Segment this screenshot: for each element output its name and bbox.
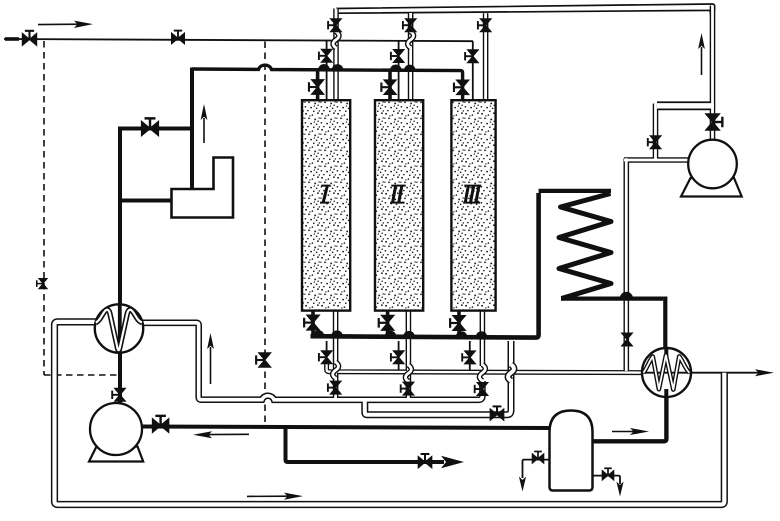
wire feed branch to column III: [472, 41, 474, 102]
wire top product manifold inner: [338, 10, 710, 14]
wire exchanger outlet down and to separator: [593, 395, 667, 441]
wire jog lower branch over collect line: [508, 365, 514, 381]
pipe cold recycle loop bottom and left: [55, 322, 725, 505]
valve V30 separator right drain: [602, 468, 614, 480]
wire heater outlet header: [561, 297, 663, 301]
pipe pump bypass horizontal: [657, 101, 714, 110]
valve V32 dashed line centre: [256, 353, 271, 367]
node manifold bottom col III a: [456, 331, 468, 336]
node manifold bottom col II a: [385, 331, 397, 336]
wire hot inlet down from manifold corner: [190, 68, 194, 190]
valve V31 dashed line left: [37, 278, 48, 288]
node manifold bottom col II b: [403, 331, 415, 336]
valve V4 column II top riser: [403, 19, 416, 32]
exchanger E2 shell right: [642, 348, 691, 397]
valve V28 blowdown outlet: [418, 454, 432, 468]
valve V27 pump discharge left: [152, 416, 168, 433]
valve V26 cooler outlet left: [112, 388, 125, 401]
coil E2: [643, 355, 689, 389]
node manifold bottom col I a: [313, 330, 325, 335]
wire product line to outlet arrow right: [688, 372, 760, 374]
valve V16 column I drawoff: [319, 351, 332, 364]
pipe riser column III top: [483, 13, 489, 102]
valve V6 block bypass: [142, 118, 159, 135]
dashed impulse line centre, from feed line down to pump discharge header: [264, 42, 266, 427]
valve V24 pump bypass right: [648, 136, 661, 149]
wire hot manifold top with jump over dashed line: [192, 65, 463, 102]
column I adsorber: [302, 100, 350, 310]
node manifold top col I b: [332, 64, 344, 69]
arrow right above bottom loop: [247, 493, 303, 500]
wire heater top header: [539, 189, 611, 193]
valve V13 column I bottom stub: [304, 315, 319, 330]
wire heater outlet down to exchanger: [663, 297, 667, 351]
valve V20 column II riser bottom: [401, 382, 414, 395]
valve V5 column III top riser: [478, 19, 491, 32]
pipe riser column I bottom: [333, 308, 339, 400]
pump P1 casing left: [90, 403, 142, 455]
pipe riser column I top: [333, 9, 339, 103]
arrow right separator to exchanger: [612, 428, 649, 435]
wire regen manifold bottom to heater: [311, 193, 539, 338]
arrow separator right drain down: [616, 482, 623, 497]
valve V14 column II bottom stub: [379, 315, 394, 330]
wire jog riser I over feed line: [333, 32, 339, 48]
pipe regen collect line to exchanger: [327, 364, 643, 373]
arrow left at pump P1 discharge: [193, 431, 249, 438]
wire jog riser II over feed line: [408, 32, 414, 48]
pipe pump bypass vertical: [653, 104, 659, 161]
valve V25 pump discharge right: [706, 114, 723, 130]
valve V2 feed line mid: [172, 31, 185, 44]
wire E2 hot stubs: [664, 349, 668, 397]
label column II: [390, 186, 406, 203]
wire separator right drain: [593, 476, 621, 484]
vessel separator dome: [550, 411, 593, 491]
valve V23 heater outlet branch: [622, 333, 633, 346]
pipe riser column II top: [408, 13, 414, 102]
pipe exchanger cold outlet down to wash header: [143, 323, 483, 400]
wire E1 tube pass vertical: [118, 305, 122, 353]
node manifold top col II a: [390, 65, 402, 70]
valve V7 column I feed branch: [319, 49, 332, 62]
wire column II bottom stub: [386, 309, 390, 337]
column III adsorber: [451, 100, 495, 310]
valve V21 column III riser bottom: [475, 383, 488, 396]
valve V12 column III hot stub: [454, 80, 469, 95]
node manifold top col I a: [318, 64, 330, 69]
arrow feed in right: [38, 21, 93, 28]
wire column I regen drawoff: [326, 341, 328, 366]
pipe pump discharge riser right: [710, 6, 716, 142]
wire separator left drain: [523, 460, 550, 478]
wire jog riser II over collect line: [405, 365, 411, 381]
wire blowdown branch with outlet: [286, 427, 445, 462]
valve V17 column II drawoff: [391, 351, 404, 364]
coil heater zigzag: [559, 194, 611, 299]
wire jog riser I over collect line: [333, 362, 339, 378]
valve V8 column II feed branch: [391, 50, 404, 63]
column II adsorber: [375, 100, 423, 310]
arrow product outlet right: [755, 369, 774, 376]
wire feed branch to column II: [398, 41, 400, 102]
arrow up at wash riser: [207, 333, 214, 384]
wire column I bottom stub: [311, 309, 315, 337]
wire feed branch to column I: [326, 40, 328, 102]
valve V29 separator left drain: [532, 451, 544, 463]
wire E2 product pass horizontal: [643, 372, 691, 374]
wire left cooler string vertical: [118, 127, 122, 405]
node manifold top col II b: [404, 65, 416, 70]
valve V10 column I hot stub: [309, 80, 324, 95]
exchanger E1 shell left: [95, 304, 143, 352]
node heater outlet branch: [620, 292, 634, 298]
wire feed line top: [4, 39, 473, 41]
label column I: [320, 186, 330, 203]
wire column II hot stub top: [388, 70, 392, 102]
valve V9 column III feed branch: [465, 50, 478, 63]
wire column III bottom stub: [457, 309, 461, 338]
arrow up at product riser right: [698, 33, 705, 75]
valve V19 column I riser bottom: [328, 381, 341, 394]
pipe riser column III bottom: [480, 308, 486, 366]
pump P2 base right: [681, 178, 742, 197]
arrow blowdown outlet heavy: [441, 456, 464, 468]
valve V1 feed inlet: [22, 31, 36, 46]
pipe pump suction horizontal: [624, 157, 689, 163]
coil E1: [96, 310, 142, 350]
arrow separator left drain down: [519, 477, 526, 492]
node manifold bottom col III b: [476, 331, 488, 336]
wire column III regen drawoff: [469, 341, 471, 372]
pipe wash header lower branch: [365, 341, 511, 415]
wire column I hot stub top: [316, 70, 320, 102]
pump P2 casing right: [688, 140, 737, 189]
pipe riser column II bottom: [406, 308, 412, 400]
wire jog riser III over collect line: [479, 365, 485, 381]
arrow up at block riser: [201, 104, 208, 143]
wire pump discharge header to separator: [142, 427, 550, 429]
valve V22 wash header: [490, 406, 504, 420]
wire column II regen drawoff: [398, 341, 400, 372]
node manifold bottom col I b: [331, 330, 343, 335]
pump P1 base left: [89, 447, 143, 462]
wire top product manifold outer: [336, 4, 715, 10]
valve V11 column II hot stub: [381, 80, 396, 95]
dashed impulse line left, from feed line down then right to pump suction: [44, 41, 119, 375]
valve V15 column III bottom stub: [450, 316, 465, 331]
wire heater block bypass with valve: [122, 127, 192, 131]
block furnace step outline left: [172, 158, 234, 218]
pipe heater branch vertical: [623, 158, 629, 371]
valve V18 column III drawoff: [462, 351, 475, 364]
label column III: [463, 186, 481, 203]
wire branch to block: [120, 199, 172, 203]
valve V3 column I top riser: [328, 19, 341, 32]
